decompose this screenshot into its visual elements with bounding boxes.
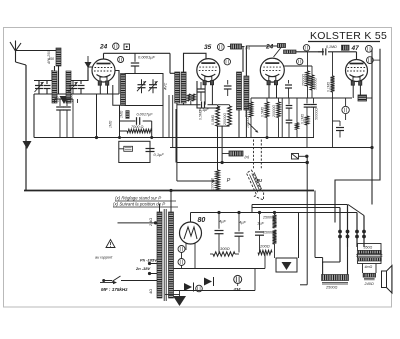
OT core	[356, 254, 382, 256]
IF transformer 1 secondary	[181, 72, 186, 103]
capacitor padder Cp1	[59, 99, 61, 106]
transformer core	[163, 209, 165, 301]
OT secondary	[357, 258, 381, 261]
svg-text:25000Ω: 25000Ω	[223, 113, 227, 126]
capacitor 4uF C6	[218, 213, 220, 229]
RF choke	[284, 50, 297, 54]
svg-text:4µF: 4µF	[239, 220, 247, 225]
wire antenna down lead	[25, 65, 27, 190]
rail B y212	[191, 212, 358, 214]
dial lamp circle	[342, 106, 349, 113]
field coil	[322, 275, 349, 281]
variable capacitor CV4	[152, 79, 154, 85]
svg-text:4µF: 4µF	[219, 219, 227, 224]
svg-text:0,1MΩ: 0,1MΩ	[301, 113, 305, 124]
resistor R5 vertical	[228, 106, 232, 126]
wire IFT1 sec top to V2 grid	[184, 53, 207, 72]
plug lead 3	[356, 213, 358, 248]
rail B y207	[252, 207, 340, 209]
wiper diagonal arrow	[248, 123, 256, 131]
transformer primary winding	[157, 212, 162, 298]
transformer center tap ground	[165, 294, 180, 296]
wire V1 cathode pin down	[107, 85, 109, 95]
resistor R3 vertical	[216, 106, 220, 126]
tap 185V	[148, 262, 151, 265]
wire 80 top	[190, 213, 192, 223]
svg-text:APL 250: APL 250	[47, 51, 51, 65]
wire circles to rail	[371, 48, 373, 50]
ground arrow on antenna lead	[23, 141, 32, 149]
svg-text:7000 Ω: 7000 Ω	[131, 125, 144, 129]
capacitor below V3	[288, 80, 290, 84]
shield circle symbol V1	[113, 43, 119, 49]
wire R3 down to pot	[217, 126, 219, 170]
plug lead 2	[347, 205, 349, 248]
svg-text:50000Ω: 50000Ω	[314, 78, 318, 90]
svg-text:0,1MΩ: 0,1MΩ	[326, 45, 337, 49]
svg-text:20000Ω: 20000Ω	[272, 105, 276, 118]
coil L3	[66, 71, 71, 103]
svg-text:240Ω: 240Ω	[364, 282, 374, 286]
wire field lead2	[347, 247, 349, 275]
wire V1 left pin down	[99, 85, 101, 95]
shield circle symbol V2	[217, 44, 224, 51]
svg-text:350Ω: 350Ω	[364, 246, 373, 250]
diode arrow 2	[184, 283, 192, 291]
IF transformer 2 secondary	[244, 76, 249, 110]
chassis box	[276, 258, 297, 272]
wire TC2 bottom	[68, 93, 88, 95]
wire OT top leads	[363, 216, 365, 241]
resistor Rc	[277, 102, 281, 118]
wire y290	[174, 290, 256, 292]
wire 80 pins	[185, 244, 187, 251]
field coil underline	[322, 282, 348, 284]
wire antenna to coupling coil	[16, 50, 56, 52]
svg-text:2n -38V: 2n -38V	[135, 266, 151, 271]
svg-text:300Ω: 300Ω	[220, 246, 230, 251]
plug lead 4	[363, 216, 365, 248]
svg-text:0,5MΩ: 0,5MΩ	[261, 106, 265, 117]
wire x222 down to bus162	[221, 126, 223, 162]
pickup PU legs	[253, 140, 255, 170]
svg-text:24: 24	[265, 44, 274, 51]
wire TC1 top	[34, 70, 52, 81]
svg-text:Ph -185V: Ph -185V	[140, 258, 157, 263]
wire V1 bias jog	[113, 85, 120, 138]
tube V2 type 35	[197, 59, 220, 82]
rail x372	[371, 49, 373, 205]
svg-text:35: 35	[204, 44, 212, 51]
wire x282 drop	[281, 98, 283, 138]
grid resistor R10	[331, 76, 335, 92]
svg-text:50000Ω: 50000Ω	[245, 105, 249, 117]
rail connect	[251, 205, 253, 213]
IF transformer 2 primary	[237, 72, 242, 110]
PU hatch	[250, 175, 258, 193]
rail B y204	[252, 204, 348, 206]
wire TC1 bottom	[33, 94, 35, 138]
svg-text:1µF: 1µF	[257, 221, 265, 226]
wire r down	[274, 244, 276, 258]
potentiometer P	[216, 170, 220, 191]
small circle 19	[367, 57, 374, 64]
variable capacitor CV1	[38, 80, 40, 86]
mains wire tap1	[118, 222, 158, 224]
pickup PU dashed arrow	[247, 170, 264, 200]
svg-text:250: 250	[56, 96, 60, 103]
wire avc drop b	[168, 95, 170, 138]
resistor 15000	[273, 230, 277, 244]
wire IFT2 bottoms	[238, 110, 240, 138]
svg-text:434: 434	[233, 287, 242, 292]
small circle below	[224, 59, 230, 65]
svg-text:2000: 2000	[70, 94, 74, 103]
svg-text:AVC: AVC	[164, 82, 168, 91]
plug lead 1	[339, 208, 341, 263]
svg-text:24: 24	[99, 44, 108, 51]
heater circle 1	[178, 246, 185, 253]
capacitor padder Cp2	[66, 99, 68, 106]
wire V2 left pin	[204, 85, 206, 105]
wire x176 drop	[175, 109, 177, 163]
wire choke right	[296, 51, 324, 53]
svg-text:(x): (x)	[245, 154, 250, 159]
wire y268	[174, 268, 266, 270]
wire transformer top to bus	[170, 191, 172, 213]
sub box outline	[119, 141, 150, 162]
OT box	[358, 244, 382, 264]
wire V2 right pin	[211, 85, 213, 105]
wire V2 plate	[242, 47, 244, 73]
wire OT to vc	[362, 264, 364, 274]
capacitor Cb	[286, 119, 293, 121]
svg-text:(x) Réglage stand sur P: (x) Réglage stand sur P	[115, 196, 161, 201]
wire bus98	[251, 97, 352, 99]
svg-text:0,5MΩ: 0,5MΩ	[211, 114, 215, 125]
wire rg drop	[190, 101, 192, 105]
wire TC1 left down	[38, 81, 40, 95]
boxed resistor with (x)	[231, 44, 242, 49]
wire x314 down	[314, 191, 316, 258]
wire field lead	[323, 262, 340, 275]
grid trimmer arrow	[87, 56, 89, 62]
svg-text:80: 80	[198, 217, 206, 224]
resistor 25000	[273, 215, 277, 228]
hatch box above V3	[278, 44, 286, 48]
variable capacitor CV3	[141, 79, 143, 85]
wire V1 plate lead right	[115, 71, 119, 95]
svg-text:KOLSTER K 55: KOLSTER K 55	[310, 30, 387, 42]
bus y190 heavy	[24, 190, 314, 192]
transformer secondary winding	[169, 212, 174, 298]
switch line	[102, 279, 105, 282]
wire V1 top cap	[103, 53, 105, 59]
wire x315 jog to field	[315, 257, 323, 259]
coil L2	[52, 71, 57, 103]
boxed component on bus	[292, 154, 299, 160]
small circle near V3	[297, 58, 303, 64]
svg-text:(x) Suivant la position de P: (x) Suivant la position de P	[113, 202, 165, 207]
small circle 83	[118, 57, 124, 63]
tube V4 type 47	[346, 60, 368, 82]
IF transformer 1 primary	[175, 72, 180, 103]
square symbol	[124, 44, 130, 50]
tube V1 type 24	[92, 59, 115, 82]
wire IFT1 primary bottom	[176, 103, 178, 181]
svg-text:10000Ω: 10000Ω	[246, 116, 250, 128]
wire top coupling	[104, 52, 171, 54]
tube V3 type 24 second	[260, 58, 284, 82]
svg-text:2500Ω: 2500Ω	[325, 286, 337, 290]
wire x298 drop	[298, 213, 300, 259]
hatch box above V4	[342, 45, 350, 50]
svg-text:15000Ω: 15000Ω	[263, 231, 276, 235]
wire R bottoms join	[218, 125, 230, 127]
wire TC2 top	[68, 70, 88, 81]
boxed resistor on bus (x)	[229, 151, 243, 156]
svg-text:1MΩ: 1MΩ	[109, 120, 113, 128]
cathode box V4	[358, 95, 367, 101]
resistor Ra	[249, 102, 253, 117]
svg-text:MF : 175kHz: MF : 175kHz	[101, 287, 128, 292]
svg-text:4mΩ: 4mΩ	[365, 265, 373, 269]
wire cap to V4	[328, 51, 357, 53]
svg-text:P: P	[227, 178, 231, 184]
small circle mid	[196, 285, 203, 292]
svg-text:0,0017µF: 0,0017µF	[137, 113, 154, 117]
svg-text:2,4Ω: 2,4Ω	[149, 218, 153, 227]
wire TC2 coils to bus	[72, 99, 74, 138]
capacitor C3 series	[120, 120, 136, 122]
transformer primary top	[159, 204, 161, 212]
resistor Rb	[265, 102, 269, 118]
resistor R9 vertical	[310, 75, 314, 90]
svg-text:0.0001µF: 0.0001µF	[138, 54, 156, 59]
wire V3 plate right	[284, 65, 312, 67]
svg-text:25000Ω: 25000Ω	[262, 216, 276, 220]
svg-text:PU: PU	[256, 178, 263, 183]
tiny hatch mark	[126, 111, 129, 119]
diode arrow 1	[204, 278, 212, 286]
tap 273	[148, 272, 151, 275]
wire u-left	[306, 156, 308, 284]
rectifier tube 80	[180, 222, 202, 244]
resistor R8 vertical	[306, 71, 310, 86]
resistor 200	[258, 250, 272, 254]
bandfilter box	[125, 74, 163, 106]
series capacitor on top wire	[318, 51, 323, 53]
speaker	[382, 271, 387, 288]
wire loop right	[151, 121, 153, 138]
resistor RG small zigzags	[188, 94, 191, 101]
wire V4 pins	[352, 85, 354, 98]
capacitor cathode V2	[227, 80, 229, 85]
wire avc drop a	[162, 88, 164, 138]
capacitor Cc	[306, 98, 308, 104]
resistor R2 zigzag	[120, 130, 128, 132]
svg-text:0,1µF: 0,1µF	[154, 152, 165, 157]
small zigzag x297	[296, 98, 298, 123]
ground arrow front-end	[60, 96, 69, 104]
capacitor C5	[339, 121, 341, 126]
svg-text:1MΩ: 1MΩ	[120, 110, 124, 118]
svg-text:4Ω: 4Ω	[149, 289, 153, 294]
svg-text:0,1MΩ: 0,1MΩ	[327, 81, 331, 92]
title underline	[308, 41, 380, 43]
trimmer capacitor CT2	[80, 81, 82, 85]
diagonal rail	[348, 205, 364, 216]
wire IFT1 sec bottom	[183, 103, 185, 105]
MF arrow	[100, 282, 114, 284]
capacitor 1uF C8	[259, 213, 261, 231]
wire heater	[181, 253, 183, 259]
voice coil	[363, 273, 376, 277]
svg-text:200Ω: 200Ω	[259, 244, 270, 249]
antenna coupling coil L1	[56, 48, 61, 66]
capacitor 4uF C7	[238, 213, 240, 232]
wire cathode ground bus	[34, 93, 119, 95]
capacitor 0.1uF	[146, 148, 155, 150]
svg-text:25000Ω: 25000Ω	[302, 74, 306, 87]
wire drop to bus147	[172, 95, 174, 148]
heater circle 2	[178, 259, 185, 266]
warning triangle	[106, 240, 115, 248]
trimmer capacitor CT1	[46, 81, 48, 85]
resistor 300	[213, 252, 235, 256]
capacitor Cd	[313, 98, 315, 104]
svg-text:au rapport: au rapport	[95, 256, 113, 260]
coupling capacitor C2	[134, 53, 136, 62]
wire IFT2 sec to V3 grid	[246, 46, 277, 76]
OT primary	[357, 250, 381, 253]
svg-text:10000Ω: 10000Ω	[211, 178, 215, 190]
capacitor Ca	[288, 98, 290, 105]
svg-text:0,5MΩ: 0,5MΩ	[199, 109, 203, 120]
coil L4	[121, 74, 126, 106]
svg-text:50000Ω: 50000Ω	[315, 108, 319, 120]
bus y137	[34, 137, 314, 139]
svg-text:47: 47	[351, 45, 360, 52]
wire coil L2 bottom to bus	[54, 99, 56, 103]
capacitor osc	[197, 88, 205, 90]
variable capacitor CV2	[72, 80, 74, 86]
box resistor 50	[124, 146, 133, 151]
oscillator box V2	[197, 81, 220, 108]
wire junction to bus	[96, 94, 98, 138]
wire V3 pins	[268, 85, 270, 98]
pilot lamp 434	[234, 275, 242, 283]
bus y147	[170, 147, 372, 149]
rail x380	[335, 49, 380, 223]
antenna	[10, 41, 16, 52]
wire y104 with series cap	[177, 104, 201, 106]
small circle 56	[303, 45, 309, 51]
wire grid to V1	[88, 67, 92, 81]
resistor Rd	[305, 116, 308, 125]
small circle 20	[366, 45, 373, 52]
pot wiper arrow	[177, 180, 212, 182]
bus y162	[177, 162, 307, 164]
